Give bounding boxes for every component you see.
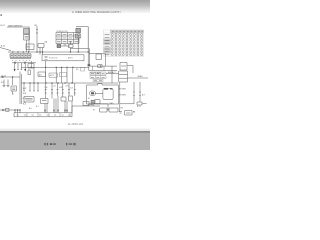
wire y48.4	[70, 47, 88, 49]
actuator body	[103, 88, 113, 99]
dash marks right	[133, 92, 141, 96]
component M1	[11, 86, 17, 91]
junction dots bus C	[24, 82, 73, 83]
component K2	[68, 44, 73, 47]
wire right y78	[128, 77, 149, 79]
svg-text:DIAG: DIAG	[109, 102, 114, 105]
terminal ticks	[17, 69, 22, 71]
ladder verticals	[93, 66, 105, 70]
wire K1 out	[61, 45, 70, 47]
wire top-left	[7, 26, 30, 28]
enclosure ABS unit	[87, 84, 119, 104]
wire stack out	[106, 72, 119, 74]
small box in enclosure	[95, 100, 100, 104]
junction dots bus A	[12, 51, 88, 52]
marks left of box	[119, 112, 122, 114]
relay R1	[26, 44, 34, 50]
connector strip X1	[10, 54, 31, 58]
wire riser C101	[27, 27, 30, 52]
wire diagonal lead	[0, 48, 11, 51]
drops to rail	[45, 96, 72, 113]
component box y65	[98, 65, 102, 68]
ground G1	[3, 80, 6, 87]
svg-text:W/L: W/L	[64, 45, 67, 47]
bottom connector circle	[2, 109, 4, 111]
component box CB4	[69, 96, 73, 101]
connector circle y77	[2, 76, 4, 78]
bottom connector CB1	[6, 108, 10, 111]
vertical x108	[107, 104, 109, 110]
wire C78 riser	[77, 38, 79, 52]
rail box inner text	[17, 114, 71, 116]
svg-text:B-7: B-7	[36, 106, 39, 108]
svg-text:REAR: REAR	[138, 75, 144, 78]
stack cells row2	[90, 76, 106, 79]
rail ticks	[18, 113, 71, 117]
terminal T1	[14, 69, 16, 72]
svg-text:G-B: G-B	[70, 88, 73, 90]
svg-text:ASSY: ASSY	[68, 56, 74, 59]
svg-text:ABS ACT: ABS ACT	[108, 71, 116, 74]
cluster right x137	[137, 102, 147, 105]
terminal blobs rail	[44, 110, 67, 112]
wire y70.4	[89, 69, 117, 71]
pin circles	[111, 34, 142, 56]
wire y66.1	[90, 65, 117, 67]
junction stubs down	[15, 110, 20, 113]
box B5	[28, 64, 34, 69]
vertical x112	[111, 66, 113, 83]
junction dot	[100, 66, 101, 67]
svg-text:B-9: B-9	[142, 95, 145, 97]
svg-text:B-5: B-5	[23, 104, 26, 106]
box bottom right	[125, 111, 133, 115]
cluster x91	[91, 100, 95, 103]
drops bus C long	[46, 83, 75, 99]
wire x88 lower	[88, 67, 90, 70]
wire RB1 out	[127, 66, 133, 74]
bus bar marks	[45, 56, 48, 59]
drops from sub bus B	[34, 67, 73, 83]
legend block	[56, 33, 79, 44]
connector circle A	[14, 62, 16, 64]
pump P1	[89, 91, 95, 96]
junction riser left	[12, 77, 14, 85]
box row2 a	[100, 108, 107, 112]
contact marks short drops	[23, 90, 39, 92]
component K1	[57, 44, 61, 47]
wire row2	[107, 109, 109, 111]
wire y53.5 to x105.5	[89, 54, 106, 67]
svg-text:RR SEN: RR SEN	[119, 89, 126, 91]
bus C	[21, 82, 118, 84]
svg-text:MAIN HARNESS: MAIN HARNESS	[8, 24, 23, 27]
wire L-shape top	[76, 27, 88, 52]
stack cells row3	[93, 79, 103, 81]
connector C78	[75, 34, 80, 38]
wire pump to actuator	[95, 92, 103, 94]
svg-text:F/L: F/L	[76, 69, 79, 71]
terminal T2	[24, 69, 26, 72]
ECU box	[24, 97, 34, 103]
svg-text:F12: F12	[1, 82, 4, 84]
wire y62.8	[12, 62, 36, 64]
label box LB2	[49, 73, 57, 77]
sub bus B	[21, 66, 88, 68]
vertical x119.8	[119, 82, 121, 112]
right box RB2	[119, 71, 128, 82]
label box LB1	[38, 72, 46, 77]
svg-text:HTR: HTR	[50, 75, 55, 77]
junction dot right	[133, 111, 134, 112]
component box CB2	[41, 99, 49, 104]
strip pin text	[12, 59, 30, 61]
riser pair left	[20, 72, 21, 105]
bottom rail box	[14, 113, 72, 117]
wire y104.5	[89, 103, 108, 105]
small box x80	[81, 68, 85, 72]
wire y103.8 right	[120, 103, 134, 105]
wire left y77	[0, 76, 20, 78]
svg-text:B-11: B-11	[137, 106, 141, 108]
connector circle B	[24, 62, 26, 64]
main bus A	[8, 51, 89, 53]
wire right of rail	[72, 106, 100, 113]
svg-text:FL BLOCK: FL BLOCK	[49, 57, 58, 59]
drops bus C short	[24, 83, 38, 91]
wire K2 riser	[69, 41, 71, 52]
switch contacts	[45, 89, 76, 93]
svg-text:EL-23954-G00: EL-23954-G00	[68, 124, 84, 126]
bus bar strip	[42, 55, 84, 61]
svg-text:L-W: L-W	[45, 87, 48, 89]
blob x88 connector	[88, 64, 91, 66]
stack cells row1	[90, 72, 106, 75]
toolbar group	[44, 143, 75, 145]
strip underline	[10, 58, 31, 60]
small box above table	[96, 54, 102, 60]
label box LB3	[60, 73, 67, 77]
svg-text:B-6: B-6	[29, 108, 32, 110]
connector pin table	[104, 30, 144, 56]
junction dots y110	[15, 109, 21, 110]
connector C101	[24, 29, 30, 35]
component box CB3	[61, 97, 66, 101]
junction J1	[36, 26, 38, 52]
box x83	[83, 102, 89, 106]
risers right pair	[134, 82, 140, 104]
bus riser pair	[88, 27, 89, 65]
svg-text:G-W: G-W	[59, 87, 63, 89]
sub bus B dots	[31, 67, 74, 68]
connector C77	[76, 28, 81, 33]
strip drops	[15, 63, 26, 70]
fuse block F1	[38, 44, 44, 55]
ground G2	[7, 80, 10, 87]
right box RB1	[120, 63, 127, 71]
page corner mark	[0, 14, 2, 16]
sub bus B feeders	[31, 61, 45, 67]
box row2 b	[109, 108, 118, 112]
bottom wire y110 left	[0, 109, 20, 111]
svg-text:4. WIRE ROUTING DIAGRAM (CONT.: 4. WIRE ROUTING DIAGRAM (CONT.)	[72, 10, 121, 14]
box left edge	[28, 70, 31, 75]
svg-text:RR SEN: RR SEN	[119, 95, 126, 97]
left small marks	[12, 91, 14, 94]
